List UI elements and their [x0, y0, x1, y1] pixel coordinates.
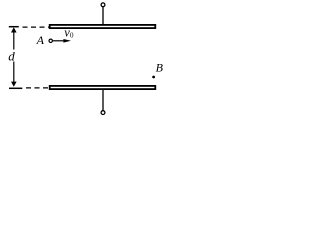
- svg-text:0: 0: [70, 32, 74, 40]
- svg-text:d: d: [8, 49, 15, 64]
- svg-text:A: A: [36, 33, 45, 47]
- svg-text:B: B: [156, 61, 164, 75]
